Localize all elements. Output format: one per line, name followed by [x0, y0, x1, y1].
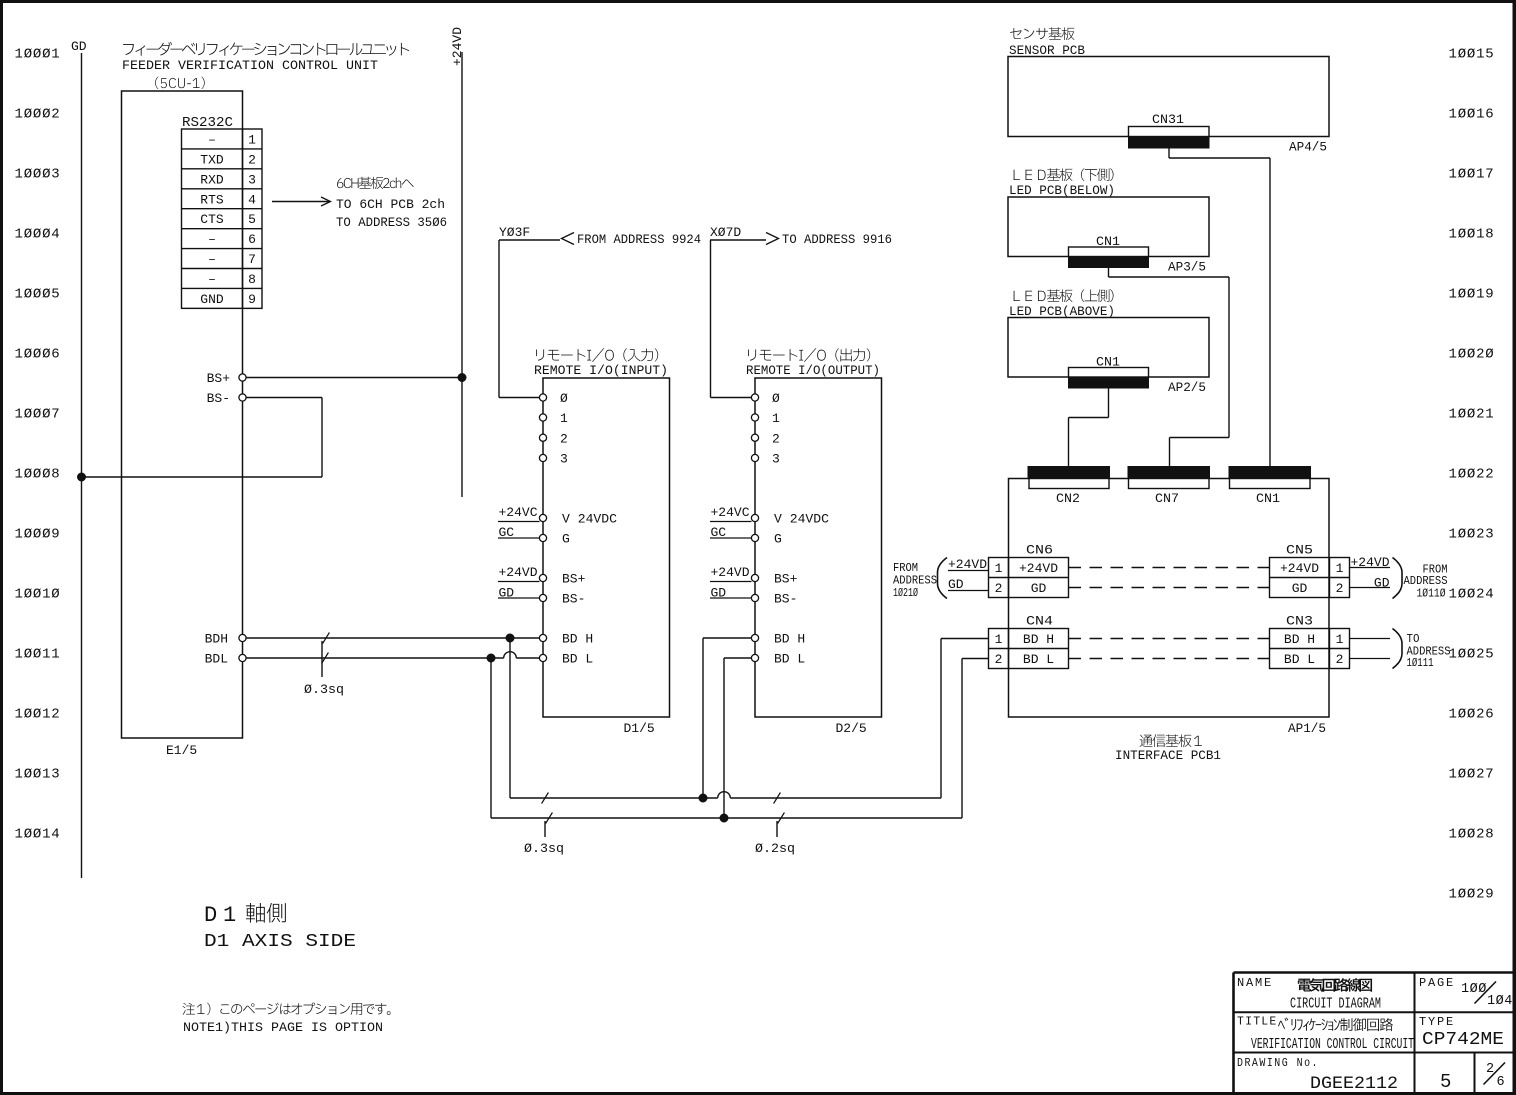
- connector CN5 table: [1270, 558, 1350, 598]
- junction GD/BS- node: [78, 473, 86, 481]
- control unit E1/5 box: [122, 91, 243, 738]
- svg-text:5: 5: [1440, 1071, 1451, 1093]
- title block title JP: [1278, 1018, 1393, 1032]
- output pin BD H circle: [751, 634, 758, 641]
- svg-text:1ØØ26: 1ØØ26: [1449, 707, 1495, 723]
- svg-text:1: 1: [560, 411, 568, 426]
- connector CN1 (interface) body: [1229, 467, 1311, 479]
- svg-text:GD: GD: [1374, 576, 1390, 591]
- svg-text:DGEE2112: DGEE2112: [1310, 1074, 1398, 1094]
- svg-text:+24VD: +24VD: [711, 565, 750, 580]
- svg-text:FEEDER VERIFICATION CONTROL UN: FEEDER VERIFICATION CONTROL UNIT: [122, 58, 378, 73]
- svg-text:NOTE1)THIS PAGE IS OPTION: NOTE1)THIS PAGE IS OPTION: [183, 1020, 383, 1035]
- svg-text:1ØØ1Ø: 1ØØ1Ø: [15, 587, 61, 603]
- note 1 JP: [183, 1003, 391, 1015]
- arrowhead to address 9916: [766, 233, 779, 245]
- svg-text:+24VC: +24VC: [499, 505, 538, 520]
- wire +24VD vertical: [461, 52, 463, 497]
- input pin BS+ circle: [539, 574, 546, 581]
- svg-text:1ØØ25: 1ØØ25: [1449, 647, 1495, 663]
- svg-text:6: 6: [1497, 1075, 1505, 1090]
- svg-text:BD H: BD H: [1023, 632, 1054, 647]
- wire GD vertical: [81, 53, 83, 878]
- svg-text:1ØØ24: 1ØØ24: [1449, 587, 1495, 603]
- svg-text:1ØØ2Ø: 1ØØ2Ø: [1449, 347, 1495, 363]
- wire output BD H to bus A: [703, 637, 752, 639]
- cable CN6-CN5 GD: [1069, 587, 1270, 589]
- svg-text:1ØØØ6: 1ØØØ6: [15, 347, 61, 363]
- bus B (BD L) horizontal: [491, 817, 962, 819]
- LED PCB above title JP: [1014, 289, 1114, 302]
- brace from address 10210: [938, 558, 948, 599]
- svg-text:1ØØ11: 1ØØ11: [15, 647, 61, 663]
- svg-text:BD L: BD L: [1284, 652, 1315, 667]
- cable CN4-CN3 BD L: [1069, 658, 1270, 660]
- LED PCB below box AP3/5: [1008, 197, 1209, 257]
- input pin 3 circle: [539, 454, 546, 461]
- svg-text:8: 8: [248, 272, 256, 287]
- gauge mark 0.3sq on BDH/BDL: [323, 633, 330, 644]
- svg-text:NAME: NAME: [1237, 976, 1273, 990]
- svg-text:1ØØØ8: 1ØØØ8: [15, 467, 61, 483]
- svg-text:1ØØ27: 1ØØ27: [1449, 767, 1495, 783]
- wire BDH drop to bus A: [509, 638, 511, 798]
- wire BS- to GD: [246, 397, 322, 399]
- output pin BD L circle: [751, 654, 758, 661]
- svg-text:1ØØ22: 1ØØ22: [1449, 467, 1495, 483]
- wire BDL drop to bus B: [490, 658, 492, 818]
- wire BD H out of CN3: [1350, 638, 1391, 640]
- connector CN6 table: [989, 558, 1069, 598]
- svg-text:TXD: TXD: [200, 152, 224, 167]
- wire CN1 below to interface CN7: [1108, 268, 1110, 278]
- input pin 1 circle: [539, 414, 546, 421]
- svg-text:GD: GD: [1031, 581, 1047, 596]
- svg-text:3: 3: [772, 452, 780, 467]
- connector CN31 body: [1129, 127, 1210, 137]
- svg-text:AP3/5: AP3/5: [1168, 261, 1206, 275]
- svg-text:AP2/5: AP2/5: [1168, 381, 1206, 395]
- svg-text:6: 6: [248, 232, 256, 247]
- svg-text:XØ7D: XØ7D: [710, 225, 741, 240]
- svg-text:TITLE: TITLE: [1237, 1016, 1278, 1029]
- wire BDH to input BD H: [246, 637, 540, 639]
- svg-text:GD: GD: [71, 39, 87, 54]
- svg-text:CN3: CN3: [1286, 615, 1313, 629]
- svg-text:BS+: BS+: [774, 572, 798, 587]
- svg-text:INTERFACE PCB1: INTERFACE PCB1: [1115, 749, 1221, 763]
- wire output BD L to bus B: [724, 657, 752, 659]
- interface PCB box AP1/5: [1009, 479, 1330, 718]
- svg-text:Ø.2sq: Ø.2sq: [755, 842, 795, 856]
- svg-text:E1/5: E1/5: [166, 743, 197, 758]
- svg-text:BD L: BD L: [1023, 652, 1054, 667]
- svg-text:CTS: CTS: [200, 212, 224, 227]
- sensor PCB title JP: [1010, 27, 1074, 40]
- svg-text:1Ø11Ø: 1Ø11Ø: [1417, 587, 1446, 601]
- gauge mark 0.3sq on bus: [542, 793, 549, 804]
- svg-text:5: 5: [248, 212, 256, 227]
- svg-text:BD L: BD L: [562, 652, 593, 667]
- svg-text:+24VD: +24VD: [450, 27, 465, 66]
- output pin 2 circle: [751, 434, 758, 441]
- svg-text:+24VC: +24VC: [711, 505, 750, 520]
- svg-text:BD L: BD L: [774, 652, 805, 667]
- svg-text:1Ø4: 1Ø4: [1487, 994, 1513, 1009]
- svg-text:Ø: Ø: [772, 391, 780, 406]
- svg-text:2: 2: [1336, 652, 1344, 667]
- svg-text:CP742ME: CP742ME: [1422, 1030, 1504, 1050]
- junction BDL drop: [487, 654, 495, 662]
- input pin 2 circle: [539, 434, 546, 441]
- svg-text:AP1/5: AP1/5: [1288, 722, 1326, 736]
- wire CN31 to interface CN1: [1168, 148, 1170, 158]
- pin BS+ circle: [239, 374, 246, 381]
- svg-text:LED PCB(BELOW): LED PCB(BELOW): [1009, 184, 1115, 198]
- junction output BD H on bus A: [699, 794, 707, 802]
- wire arrow from RTS/CTS to 6CH PCB: [272, 201, 329, 203]
- pin BDH circle: [239, 634, 246, 641]
- svg-text:1ØØ19: 1ØØ19: [1449, 287, 1495, 303]
- svg-text:1: 1: [995, 632, 1003, 647]
- svg-text:4: 4: [248, 192, 256, 207]
- svg-text:TO ADDRESS 9916: TO ADDRESS 9916: [782, 233, 892, 247]
- LED PCB above box AP2/5: [1008, 318, 1209, 378]
- wire BDL to input BD L (left part): [246, 657, 504, 659]
- svg-text:V 24VDC: V 24VDC: [774, 512, 829, 527]
- junction BDH drop: [506, 634, 514, 642]
- svg-text:1ØØ13: 1ØØ13: [15, 767, 61, 783]
- svg-text:1ØØ12: 1ØØ12: [15, 707, 61, 723]
- sensor PCB box AP4/5: [1008, 57, 1329, 137]
- svg-text:1ØØØ5: 1ØØØ5: [15, 287, 61, 303]
- interface PCB title JP: [1140, 734, 1202, 747]
- svg-text:1ØØØ3: 1ØØØ3: [15, 167, 61, 183]
- connector CN1 (above) body: [1069, 368, 1149, 378]
- control unit subtitle (5CU-1): [155, 77, 205, 89]
- svg-text:RTS: RTS: [200, 192, 224, 207]
- output pin Ø circle: [751, 394, 758, 401]
- svg-text:BDL: BDL: [205, 652, 228, 667]
- pin BDL circle: [239, 654, 246, 661]
- svg-text:+24VD: +24VD: [1280, 561, 1319, 576]
- gauge mark 0.2sq on bus: [774, 793, 781, 804]
- input pin Ø circle: [539, 394, 546, 401]
- cable CN4-CN3 BD H: [1069, 638, 1270, 640]
- connector CN2 body: [1028, 467, 1110, 479]
- svg-text:1ØØØ7: 1ØØØ7: [15, 407, 61, 423]
- wire bus B to CN4 pin 2: [961, 659, 963, 819]
- svg-text:BS-: BS-: [207, 391, 230, 406]
- svg-text:D1/5: D1/5: [624, 721, 655, 736]
- svg-text:DRAWING No.: DRAWING No.: [1237, 1056, 1319, 1070]
- title block name JP: [1298, 978, 1372, 992]
- connector RS232C table grid: [182, 129, 263, 308]
- connector CN4 table: [989, 629, 1069, 669]
- pin BS- circle: [239, 394, 246, 401]
- input pin G circle: [539, 534, 546, 541]
- svg-text:GND: GND: [200, 292, 224, 307]
- svg-text:–: –: [208, 272, 216, 287]
- svg-text:2: 2: [560, 431, 568, 446]
- input pin BD L circle: [539, 654, 546, 661]
- svg-text:7: 7: [248, 252, 256, 267]
- svg-text:REMOTE I/O(OUTPUT): REMOTE I/O(OUTPUT): [746, 363, 880, 378]
- svg-text:Ø.3sq: Ø.3sq: [304, 683, 344, 697]
- wire CN1 above to interface CN2: [1108, 388, 1110, 418]
- bus A hop over output BD L drop: [718, 792, 731, 798]
- svg-text:2: 2: [772, 431, 780, 446]
- junction +24VD/BS+: [458, 374, 466, 382]
- svg-text:BD H: BD H: [774, 632, 805, 647]
- LED PCB below title JP: [1014, 168, 1114, 181]
- svg-text:1: 1: [1336, 561, 1344, 576]
- label 6CH PCB 2ch JP: [337, 177, 414, 189]
- svg-text:BS+: BS+: [207, 371, 231, 386]
- svg-text:1: 1: [223, 903, 236, 928]
- control unit title JP: [123, 42, 409, 56]
- svg-text:9: 9: [248, 292, 256, 307]
- svg-text:–: –: [208, 252, 216, 267]
- svg-text:BDH: BDH: [205, 632, 228, 647]
- svg-text:G: G: [774, 532, 782, 547]
- svg-text:1: 1: [995, 561, 1003, 576]
- output pin 1 circle: [751, 414, 758, 421]
- svg-text:BD H: BD H: [1284, 632, 1315, 647]
- svg-text:1: 1: [1336, 632, 1344, 647]
- arrowhead from address 9924: [562, 233, 575, 245]
- connector CN1 (below) body: [1069, 247, 1149, 257]
- svg-text:CN31: CN31: [1152, 113, 1184, 127]
- svg-text:2: 2: [995, 652, 1003, 667]
- svg-text:1ØØ21: 1ØØ21: [1449, 407, 1495, 423]
- svg-text:REMOTE I/O(INPUT): REMOTE I/O(INPUT): [534, 363, 668, 378]
- svg-text:2: 2: [995, 581, 1003, 596]
- svg-text:+24VD: +24VD: [499, 565, 538, 580]
- svg-text:CN2: CN2: [1056, 492, 1080, 506]
- wire BDL hop over BDH drop: [504, 652, 517, 658]
- svg-text:GD: GD: [1292, 581, 1308, 596]
- svg-text:1ØØ29: 1ØØ29: [1449, 887, 1495, 903]
- output pin BS- circle: [751, 594, 758, 601]
- svg-text:1: 1: [248, 132, 256, 147]
- svg-text:D2/5: D2/5: [836, 721, 867, 736]
- svg-text:BS-: BS-: [562, 592, 585, 607]
- input pin BS- circle: [539, 594, 546, 601]
- svg-text:2: 2: [248, 152, 256, 167]
- svg-text:GD: GD: [948, 577, 964, 592]
- svg-text:G: G: [562, 532, 570, 547]
- svg-text:PAGE: PAGE: [1419, 976, 1455, 990]
- svg-text:1ØØ23: 1ØØ23: [1449, 527, 1495, 543]
- svg-text:1ØØØ1: 1ØØØ1: [15, 47, 61, 63]
- svg-text:1: 1: [772, 411, 780, 426]
- svg-text:2: 2: [1336, 581, 1344, 596]
- svg-text:1ØØ28: 1ØØ28: [1449, 827, 1495, 843]
- output pin G circle: [751, 534, 758, 541]
- junction output BD L on bus B: [720, 814, 728, 822]
- svg-text:1ØØØ2: 1ØØØ2: [15, 107, 61, 123]
- svg-text:TO 6CH PCB 2ch: TO 6CH PCB 2ch: [336, 197, 445, 212]
- svg-text:YØ3F: YØ3F: [499, 225, 530, 240]
- svg-text:+24VD: +24VD: [948, 557, 987, 572]
- svg-text:–: –: [208, 232, 216, 247]
- svg-text:VERIFICATION CONTROL CIRCUIT: VERIFICATION CONTROL CIRCUIT: [1251, 1036, 1414, 1053]
- brace to address 10111: [1393, 629, 1403, 669]
- wire bus A to CN4 pin 1: [940, 639, 942, 799]
- svg-text:Ø.3sq: Ø.3sq: [524, 842, 564, 856]
- svg-text:1ØØ14: 1ØØ14: [15, 827, 61, 843]
- output pin BS+ circle: [751, 574, 758, 581]
- svg-text:1ØØ18: 1ØØ18: [1449, 227, 1495, 243]
- svg-text:CN4: CN4: [1026, 615, 1053, 629]
- title block frame: [1234, 971, 1515, 974]
- svg-text:CN1: CN1: [1256, 492, 1280, 506]
- input pin V 24VDC circle: [539, 514, 546, 521]
- svg-text:1Ø21Ø: 1Ø21Ø: [893, 586, 918, 600]
- svg-text:CN7: CN7: [1155, 492, 1179, 506]
- svg-text:TYPE: TYPE: [1419, 1015, 1455, 1029]
- svg-text:D1 AXIS SIDE: D1 AXIS SIDE: [204, 931, 356, 952]
- remote I/O input box D1/5: [543, 378, 670, 717]
- svg-text:V 24VDC: V 24VDC: [562, 512, 617, 527]
- svg-text:1ØØ16: 1ØØ16: [1449, 107, 1495, 123]
- svg-text:CIRCUIT DIAGRAM: CIRCUIT DIAGRAM: [1290, 997, 1381, 1013]
- output pin 3 circle: [751, 454, 758, 461]
- svg-text:FROM ADDRESS 9924: FROM ADDRESS 9924: [577, 233, 701, 247]
- svg-text:1ØØØ9: 1ØØØ9: [15, 527, 61, 543]
- svg-text:Ø: Ø: [560, 391, 568, 406]
- brace from address 10110: [1393, 558, 1403, 599]
- svg-text:AP4/5: AP4/5: [1289, 141, 1327, 155]
- svg-text:BD H: BD H: [562, 632, 593, 647]
- remote I/O input title JP: [536, 348, 658, 362]
- output pin V 24VDC circle: [751, 514, 758, 521]
- svg-text:TO ADDRESS 35Ø6: TO ADDRESS 35Ø6: [336, 215, 447, 230]
- wire Y03F: [499, 239, 560, 241]
- svg-text:D: D: [204, 903, 217, 928]
- input pin BD H circle: [539, 634, 546, 641]
- svg-text:1Ø111: 1Ø111: [1407, 656, 1434, 670]
- cable CN6-CN5 +24VD: [1069, 567, 1270, 569]
- svg-text:CN5: CN5: [1286, 544, 1313, 558]
- svg-text:BS+: BS+: [562, 572, 586, 587]
- svg-text:+24VD: +24VD: [1019, 561, 1058, 576]
- svg-text:3: 3: [560, 452, 568, 467]
- remote I/O output title JP: [748, 348, 870, 362]
- svg-text:–: –: [208, 132, 216, 147]
- connector CN3 table: [1270, 629, 1350, 669]
- svg-text:RXD: RXD: [200, 172, 224, 187]
- bus A (BD H) horizontal: [510, 797, 718, 799]
- svg-text:CN6: CN6: [1026, 544, 1053, 558]
- svg-text:3: 3: [248, 172, 256, 187]
- svg-text:1ØØ17: 1ØØ17: [1449, 167, 1495, 183]
- svg-text:1ØØ15: 1ØØ15: [1449, 47, 1495, 63]
- wire BD L out of CN3: [1350, 658, 1391, 660]
- connector CN7 body: [1128, 467, 1210, 479]
- svg-text:1ØØØ4: 1ØØØ4: [15, 227, 61, 243]
- wire X07D: [710, 239, 766, 241]
- svg-text:BS-: BS-: [774, 592, 797, 607]
- remote I/O output box D2/5: [755, 378, 882, 717]
- node +24VD label (rotated): [450, 27, 465, 66]
- wire BS+ to +24VD: [246, 377, 462, 379]
